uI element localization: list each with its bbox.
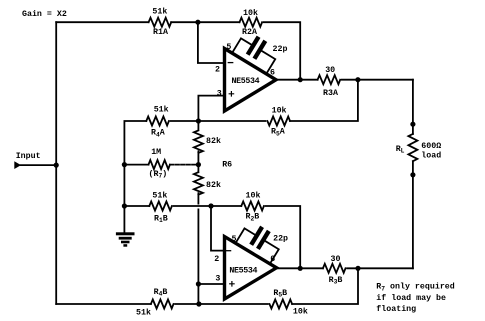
wire R3A node down to R5A row [290, 80, 358, 121]
node load bottom terminal [410, 172, 415, 177]
svg-text:floating: floating [376, 304, 416, 314]
svg-text:5: 5 [226, 43, 231, 52]
wire R3B to right rail [347, 267, 413, 269]
svg-text:R2A: R2A [242, 28, 257, 37]
resistor R7 1M zigzag [149, 160, 170, 169]
svg-text:R1B: R1B [154, 214, 168, 224]
svg-text:51k: 51k [152, 191, 167, 201]
wire U2 output to R3B [277, 267, 323, 269]
resistor R4A zigzag [146, 117, 169, 126]
svg-text:22p: 22p [273, 235, 288, 244]
svg-text:R4A: R4A [151, 129, 165, 139]
node pin3 U1 / R4A / R6 junction [196, 118, 201, 123]
svg-text:5: 5 [232, 235, 237, 244]
U1 plus sign pin3 [229, 92, 233, 96]
op-amp U1 triangle NE5534 [225, 49, 277, 112]
wire pin 3 of U1 down to R4A node [198, 96, 224, 121]
svg-text:6: 6 [270, 255, 275, 264]
resistor R1B zigzag [149, 202, 172, 211]
svg-text:51k: 51k [136, 307, 151, 316]
wire R4B left lead to input rail [56, 303, 151, 305]
svg-text:3: 3 [215, 275, 220, 284]
svg-text:2: 2 [215, 65, 220, 74]
svg-text:(R7): (R7) [149, 169, 168, 180]
wire R5A to R4A node [171, 120, 266, 122]
wire R3B node down to R5B row [292, 268, 358, 304]
wire R5B to R4B through pin3 node [175, 303, 268, 305]
svg-text:R7 only required: R7 only required [376, 282, 454, 293]
node output U2 feedback junction [298, 266, 303, 271]
svg-text:R3B: R3B [329, 276, 343, 286]
ground symbol [116, 232, 135, 246]
svg-text:load: load [421, 151, 441, 161]
svg-text:6: 6 [270, 69, 275, 78]
svg-text:NE5534: NE5534 [229, 267, 257, 276]
svg-text:R5B: R5B [273, 289, 287, 299]
wire R1B row [124, 205, 241, 207]
wire 1M left lead [124, 164, 148, 166]
resistor R4B zigzag [151, 300, 174, 309]
resistor R3B zigzag [323, 264, 346, 273]
resistor R6 lower 82k zigzag [194, 165, 203, 195]
resistor R2B zigzag [241, 202, 264, 211]
wire R2B right to output node of U2 [266, 206, 301, 268]
node junction R1A/R2A/pin2 [195, 20, 200, 25]
svg-text:51k: 51k [154, 104, 169, 114]
wire top row from Gain corner to R1A [56, 21, 148, 23]
svg-text:10k: 10k [243, 8, 258, 18]
wire R6 bottom crossing R1B row (no connect) down to pin3 of U2 [197, 193, 199, 304]
svg-text:600Ω: 600Ω [421, 142, 441, 151]
node 1M left on ground rail [122, 162, 127, 167]
svg-text:R1A: R1A [153, 28, 168, 37]
svg-text:RL: RL [396, 145, 405, 155]
svg-text:Input: Input [16, 152, 41, 161]
wire U1 output to R3A [276, 79, 318, 81]
wire 1M right to R6 node [170, 164, 198, 166]
svg-text:3: 3 [217, 89, 222, 98]
svg-text:R2B: R2B [246, 213, 260, 223]
svg-text:R4B: R4B [154, 288, 168, 298]
node load top terminal [410, 122, 415, 127]
resistor R5B zigzag [270, 300, 293, 309]
input arrow terminal [14, 161, 21, 169]
U1 minus sign pin2 [228, 62, 232, 64]
svg-text:82k: 82k [206, 136, 221, 146]
svg-text:R5A: R5A [271, 128, 285, 138]
wire pin 3 of U2 row [198, 283, 224, 285]
resistor R5A zigzag [267, 117, 290, 126]
node R3A output junction [355, 77, 360, 82]
node output U1 feedback junction [298, 77, 303, 82]
svg-text:10k: 10k [293, 307, 308, 316]
wire input to rail [21, 164, 57, 166]
wire input left rail (top corner to bottom row) [55, 22, 57, 304]
node R3B output junction [355, 266, 360, 271]
capacitor C1 22p on U1 (leads) [232, 29, 281, 74]
node R1B/R2B/pin2 U2 junction [208, 203, 213, 208]
svg-text:1M: 1M [151, 148, 161, 157]
op-amp U2 triangle NE5534 [225, 237, 277, 299]
wire right rail load to bottom [412, 161, 414, 268]
svg-text:R3A: R3A [323, 89, 338, 98]
svg-text:10k: 10k [246, 191, 261, 201]
svg-text:R6: R6 [222, 161, 232, 170]
wire R2A right to output node of U1 [264, 22, 300, 79]
svg-text:NE5534: NE5534 [232, 77, 260, 86]
resistor R6 upper 82k zigzag [194, 121, 203, 165]
svg-text:30: 30 [331, 255, 341, 264]
wire R3A to right rail [342, 79, 413, 81]
node R6 midpoint / R7 junction [196, 162, 201, 167]
svg-text:22p: 22p [273, 45, 288, 54]
resistor R1A zigzag [149, 18, 172, 27]
node pin3 U2 / R6 junction [196, 281, 201, 286]
node input junction [54, 163, 59, 168]
resistor RL zigzag [408, 134, 417, 161]
U2 plus sign pin3 [230, 282, 234, 286]
resistor R2A zigzag [240, 18, 263, 27]
svg-text:82k: 82k [206, 180, 221, 190]
svg-text:Gain = X2: Gain = X2 [22, 9, 67, 19]
resistor R3A zigzag [318, 75, 341, 84]
wire node down to pin 2 of U1 [198, 22, 225, 63]
svg-text:10k: 10k [272, 106, 287, 116]
capacitor C2 22p on U2 (leads) [236, 219, 285, 264]
wire node down to pin 2 of U2 [211, 206, 225, 251]
wire R1A to R2A through node [171, 21, 239, 23]
U2 minus sign pin2 [226, 250, 230, 252]
svg-text:if load may be: if load may be [376, 293, 446, 303]
svg-text:51k: 51k [152, 7, 167, 17]
svg-text:2: 2 [214, 255, 219, 264]
wire R4A left lead and ground rail [124, 121, 146, 233]
node R1B left on ground rail [122, 203, 127, 208]
svg-text:30: 30 [325, 66, 335, 75]
node bottom row / pin3 U2 rail junction [196, 301, 201, 306]
wire right rail top to load [412, 80, 414, 134]
